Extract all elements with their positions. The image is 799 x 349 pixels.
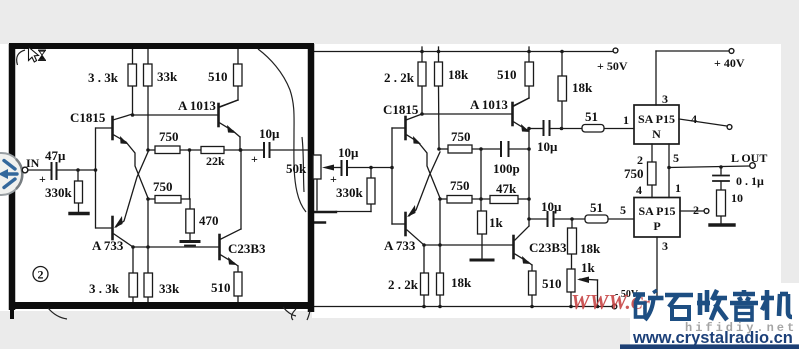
svg-text:51: 51: [590, 200, 603, 215]
svg-text:10μ: 10μ: [259, 126, 280, 141]
svg-text:C1815: C1815: [383, 102, 419, 117]
svg-text:22k: 22k: [206, 154, 225, 168]
svg-text:2: 2: [693, 203, 699, 217]
svg-text:470: 470: [199, 213, 219, 228]
svg-text:47μ: 47μ: [45, 148, 66, 163]
svg-text:18k: 18k: [572, 80, 593, 95]
svg-text:2: 2: [38, 268, 44, 282]
svg-text:+: +: [39, 172, 46, 186]
svg-text:4: 4: [636, 183, 642, 197]
svg-text:SA P15: SA P15: [638, 112, 675, 126]
svg-text:A 733: A 733: [384, 238, 416, 253]
svg-text:2 . 2k: 2 . 2k: [388, 277, 419, 292]
svg-text:510: 510: [211, 280, 231, 295]
svg-text:1k: 1k: [581, 260, 596, 275]
svg-text:2 . 2k: 2 . 2k: [384, 70, 415, 85]
svg-text:P: P: [653, 219, 660, 233]
svg-text:+: +: [330, 172, 337, 186]
svg-text:+: +: [251, 152, 258, 166]
svg-text:750: 750: [153, 179, 173, 194]
svg-text:510: 510: [497, 67, 517, 82]
svg-text:4: 4: [691, 112, 697, 126]
svg-text:18k: 18k: [448, 67, 469, 82]
svg-text:18k: 18k: [451, 275, 472, 290]
svg-text:10: 10: [731, 191, 743, 205]
svg-text:www.crystalradio.cn: www.crystalradio.cn: [632, 329, 793, 347]
svg-text:750: 750: [624, 166, 644, 181]
svg-text:IN: IN: [26, 156, 40, 170]
svg-text:750: 750: [451, 129, 471, 144]
svg-text:50k: 50k: [286, 161, 307, 176]
svg-text:A 1013: A 1013: [470, 97, 508, 112]
svg-text:L OUT: L OUT: [731, 151, 767, 165]
svg-text:A 733: A 733: [92, 238, 124, 253]
svg-text:10μ: 10μ: [541, 199, 562, 214]
svg-text:C23B3: C23B3: [529, 240, 567, 255]
svg-text:330k: 330k: [336, 185, 364, 200]
svg-text:+ 40V: + 40V: [714, 56, 745, 70]
svg-text:100p: 100p: [493, 161, 520, 176]
svg-text:3: 3: [662, 92, 668, 106]
svg-text:2: 2: [637, 153, 643, 167]
svg-text:10μ: 10μ: [338, 145, 359, 160]
svg-text:47k: 47k: [496, 181, 517, 196]
svg-text:SA P15: SA P15: [638, 204, 675, 218]
svg-text:3: 3: [662, 239, 668, 253]
svg-text:5: 5: [620, 203, 626, 217]
svg-text:C23B3: C23B3: [228, 241, 266, 256]
svg-text:1: 1: [623, 113, 629, 127]
svg-text:1: 1: [675, 181, 681, 195]
svg-text:750: 750: [159, 129, 179, 144]
svg-text:5: 5: [673, 151, 679, 165]
svg-text:10μ: 10μ: [537, 139, 558, 154]
svg-text:3 . 3k: 3 . 3k: [88, 70, 119, 85]
svg-text:1k: 1k: [489, 215, 504, 230]
svg-text:0 . 1μ: 0 . 1μ: [736, 174, 764, 188]
svg-text:N: N: [652, 127, 661, 141]
svg-text:330k: 330k: [45, 185, 73, 200]
svg-text:510: 510: [542, 276, 562, 291]
svg-text:750: 750: [450, 178, 470, 193]
svg-text:510: 510: [208, 69, 228, 84]
svg-text:18k: 18k: [580, 241, 601, 256]
svg-text:C1815: C1815: [70, 110, 106, 125]
svg-text:51: 51: [585, 109, 598, 124]
svg-text:+ 50V: + 50V: [597, 59, 628, 73]
svg-text:3 . 3k: 3 . 3k: [89, 281, 120, 296]
svg-text:33k: 33k: [159, 281, 180, 296]
svg-text:A 1013: A 1013: [178, 98, 216, 113]
svg-text:33k: 33k: [157, 69, 178, 84]
